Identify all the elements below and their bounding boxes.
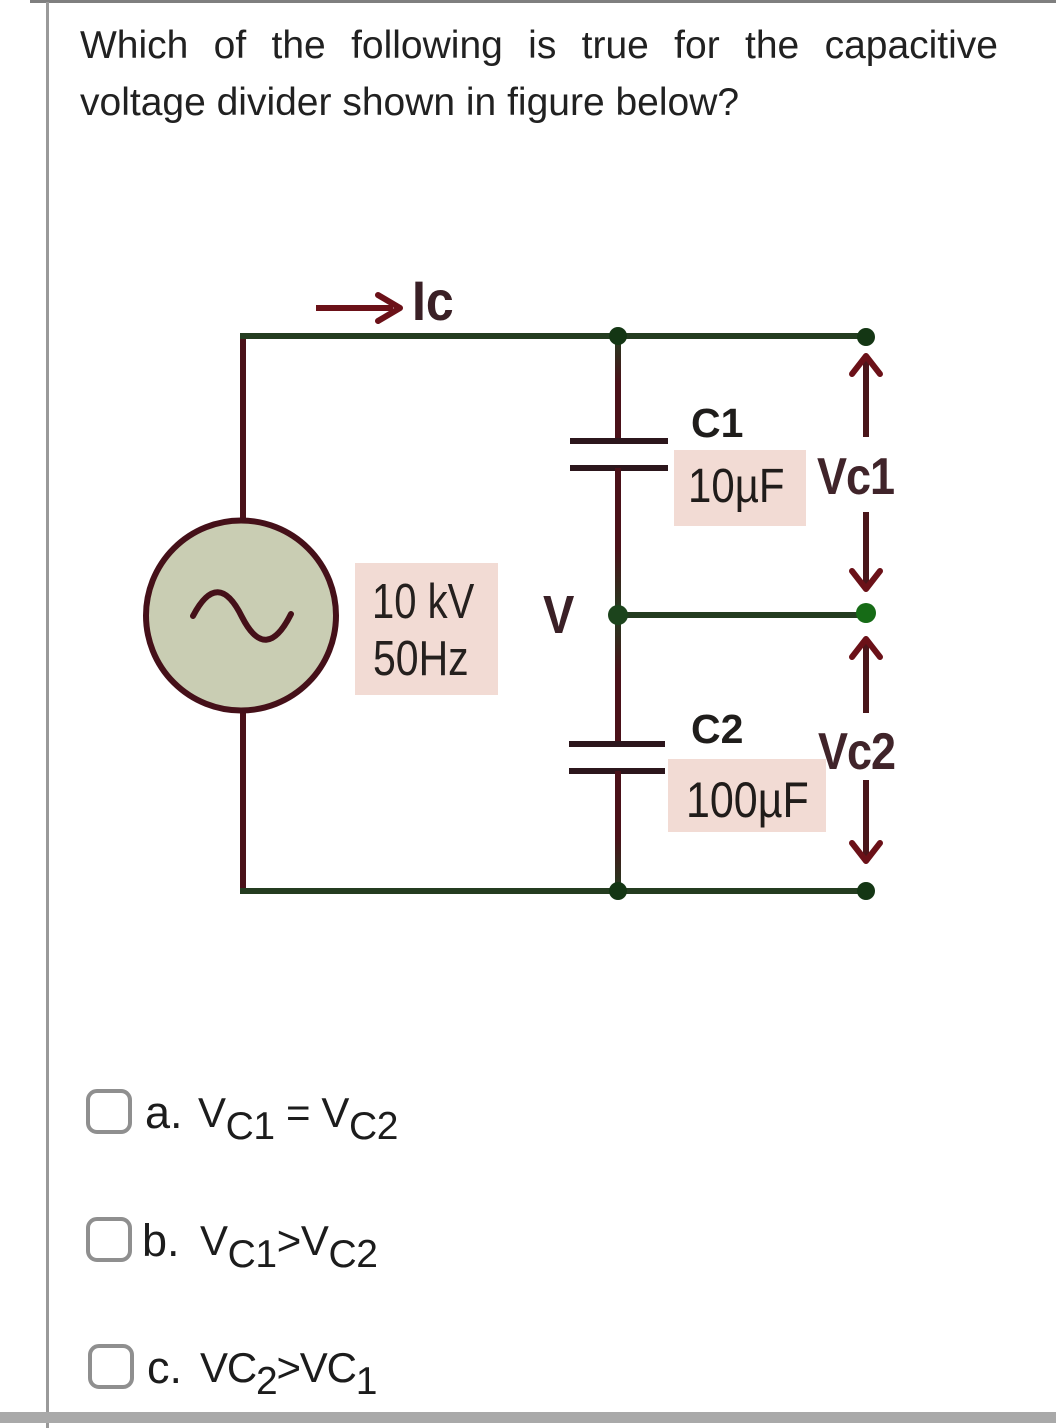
svg-text:V: V xyxy=(543,584,575,645)
svg-text:Ic: Ic xyxy=(412,270,454,332)
svg-text:10µF: 10µF xyxy=(688,458,785,512)
svg-text:50Hz: 50Hz xyxy=(373,630,469,685)
svg-text:C1: C1 xyxy=(691,400,743,446)
svg-text:Vc2: Vc2 xyxy=(818,723,895,781)
svg-text:C2: C2 xyxy=(691,706,743,752)
svg-text:10 kV: 10 kV xyxy=(372,575,474,629)
svg-text:Vc1: Vc1 xyxy=(817,448,894,506)
svg-text:100µF: 100µF xyxy=(686,772,809,828)
